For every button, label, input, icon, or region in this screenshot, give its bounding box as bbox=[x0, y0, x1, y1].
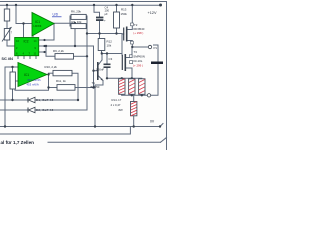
junction (99.5,33.5) bbox=[98, 32, 100, 34]
wire Rb bottom lead bbox=[12, 89, 14, 100]
svg-text:R10, 2,2k: R10, 2,2k bbox=[45, 65, 58, 69]
svg-text:IC2: IC2 bbox=[24, 40, 29, 44]
wire T3 drain up bbox=[131, 47, 133, 58]
wire H67 to IC1b +input bbox=[5, 66, 18, 68]
wire Rb top lead bbox=[12, 67, 14, 72]
IC U2 IC2 bbox=[15, 38, 39, 56]
wire base bus bbox=[93, 46, 95, 88]
wire IC1b feedback loop bbox=[15, 75, 49, 91]
wire IC2 right pin 3 bbox=[39, 51, 45, 53]
wire R11 right lead to T1 base bbox=[75, 87, 94, 89]
svg-text:µF: µF bbox=[105, 12, 109, 16]
wire T1 emitter down to rail bbox=[95, 81, 103, 127]
diode D2 bbox=[28, 107, 54, 113]
svg-text:IC1: IC1 bbox=[35, 20, 40, 24]
svg-text:8W: 8W bbox=[119, 108, 124, 112]
junction (116.5,5) bbox=[115, 4, 117, 6]
wire rail A 0V bbox=[0, 126, 160, 128]
op-amp U1 IC1a bbox=[32, 13, 54, 37]
power resistor R15 bbox=[129, 79, 135, 95]
wire H47 to P1 bbox=[132, 46, 148, 48]
junction (75,46) bbox=[74, 45, 76, 47]
svg-text:BC550: BC550 bbox=[91, 85, 100, 89]
svg-text:LM358: LM358 bbox=[34, 25, 42, 28]
junction (7,5) bbox=[6, 4, 8, 6]
wire T1 base bbox=[94, 70, 98, 72]
wire output drop to H46 bbox=[74, 23, 76, 46]
junction (44.5,46) bbox=[43, 45, 45, 47]
svg-text:0V: 0V bbox=[150, 120, 155, 124]
wire IC1a output bbox=[53, 22, 75, 24]
junction (160.5,5) bbox=[159, 4, 162, 7]
svg-text:4 x 0,47: 4 x 0,47 bbox=[111, 103, 121, 107]
svg-text:al für 1,7 Zellen: al für 1,7 Zellen bbox=[1, 140, 35, 145]
junction (48.5,87.5) bbox=[47, 86, 49, 88]
terminal output bbox=[147, 94, 150, 97]
svg-text:P1: P1 bbox=[154, 46, 158, 50]
wire H95 shunt bottoms bbox=[121, 94, 123, 95]
wire R13 bottom lead bbox=[116, 28, 118, 34]
svg-text:SIC 494: SIC 494 bbox=[2, 57, 14, 61]
resistor Rb (left of IC1b) bbox=[10, 72, 15, 89]
junction (87,56.3) bbox=[86, 55, 88, 57]
wire x122 vertical gate link bbox=[121, 34, 123, 56]
wire IC1a feedback loop bbox=[33, 24, 54, 41]
transistor Q2 T2 MOSFET bbox=[124, 23, 145, 44]
wire R9 left lead bbox=[46, 46, 55, 56]
wire R9 right lead bbox=[74, 55, 88, 57]
wire D2 line bbox=[0, 109, 28, 111]
svg-text:D1, BaT 48: D1, BaT 48 bbox=[36, 98, 54, 102]
wire C4 top lead bbox=[94, 5, 100, 17]
svg-text:IC1: IC1 bbox=[24, 73, 29, 77]
junction (78,100) bbox=[77, 99, 79, 101]
junction (107,78.3) bbox=[106, 77, 108, 79]
resistor R12 bbox=[98, 39, 105, 51]
svg-text:U/D: U/D bbox=[53, 13, 59, 17]
wire rail B bbox=[0, 127, 130, 135]
wire T1 collector diagonal bbox=[99, 60, 103, 65]
wire T1 collector vertical bbox=[101, 54, 103, 61]
wire IC2 right pin 1 bbox=[39, 39, 45, 41]
wire IC2 right pin 2 to H46 bbox=[39, 45, 94, 47]
wire R11 left lead bbox=[49, 87, 58, 89]
junction (75,23.2) bbox=[74, 22, 76, 24]
wire D1 line bbox=[0, 99, 28, 101]
wire C3 bottom lead bbox=[106, 68, 108, 78]
resistor R1 bbox=[4, 9, 9, 21]
frame right bbox=[166, 2, 168, 151]
wire R1 to trimmer bbox=[6, 21, 8, 29]
wire rail A end tick bbox=[160, 124, 163, 127]
capacitor C4 bbox=[96, 6, 109, 23]
junction (87,33.5) bbox=[86, 32, 88, 34]
svg-text:D2, BaT 48: D2, BaT 48 bbox=[36, 108, 54, 112]
junction (44.5,40) bbox=[43, 39, 45, 41]
svg-text:R13: R13 bbox=[121, 8, 127, 12]
wire R1 top lead bbox=[6, 5, 8, 9]
svg-text:+: + bbox=[104, 18, 106, 22]
power resistor R16 bbox=[139, 79, 145, 95]
svg-text:R11, 1k: R11, 1k bbox=[56, 79, 66, 83]
junction (44.5,52) bbox=[43, 51, 45, 53]
junction (5,125) bbox=[4, 125, 6, 127]
svg-text:T3: T3 bbox=[134, 50, 138, 54]
wire R6R7 left connector bbox=[69, 16, 71, 26]
svg-text:100nF: 100nF bbox=[96, 68, 104, 72]
wire +12V rail bbox=[0, 4, 161, 6]
svg-text:R14..17: R14..17 bbox=[112, 98, 122, 102]
resistor R13 bbox=[114, 12, 120, 28]
junction (121.8,78.3) bbox=[121, 77, 123, 79]
wire +input to rail A bbox=[4, 67, 6, 127]
wire trimmer bottom to IC2 left pin bbox=[7, 40, 15, 46]
svg-text:03-10L: 03-10L bbox=[133, 59, 142, 63]
junction (93.5,87.5) bbox=[92, 86, 94, 88]
wire IC1a input bbox=[16, 5, 32, 24]
power resistor R14 bbox=[119, 79, 125, 95]
junction (131.5,125) bbox=[133, 125, 135, 127]
wire R13 top lead bbox=[116, 5, 118, 12]
diode D1 bbox=[28, 97, 54, 103]
svg-text:(+ 299 ): (+ 299 ) bbox=[133, 64, 143, 68]
svg-text:457 mV/4h: 457 mV/4h bbox=[27, 78, 41, 82]
junction (94,5) bbox=[93, 4, 95, 6]
junction (132.3,5) bbox=[131, 4, 133, 6]
transistor Q3 T3 MOSFET bbox=[122, 50, 145, 71]
wire T2 drain bbox=[127, 5, 133, 30]
op-amp U1b IC1b bbox=[18, 63, 47, 87]
transistor Q1 T1 BC550 bbox=[91, 62, 103, 89]
wire T3 drain lead bbox=[125, 57, 132, 59]
junction (46,46) bbox=[45, 45, 47, 47]
wire R17 bottom lead bbox=[133, 116, 135, 127]
wire R12 bottom lead bbox=[101, 51, 103, 54]
wire T2 gate lead bbox=[122, 33, 124, 35]
wire IC2 bottom pin stubs bbox=[17, 56, 19, 59]
capacitor C3 bbox=[96, 57, 113, 72]
wire C3 top lead bbox=[106, 54, 108, 64]
junction (23.5,23.5) bbox=[22, 22, 24, 24]
wire T2 source bbox=[127, 41, 133, 48]
junction (12.5,67) bbox=[11, 66, 13, 68]
svg-text:(+ 298 ): (+ 298 ) bbox=[133, 31, 143, 35]
wire T1 emitter diagonal bbox=[99, 76, 104, 81]
junction (132.3,47) bbox=[131, 46, 133, 48]
junction (160,125) bbox=[159, 125, 161, 127]
caption rule bbox=[48, 141, 161, 143]
wire T3 source bbox=[125, 68, 132, 78]
trimmer P1 bbox=[2, 27, 13, 42]
svg-text:10k: 10k bbox=[107, 44, 112, 48]
wire R10 leads bbox=[49, 72, 54, 74]
svg-text:+12V: +12V bbox=[148, 11, 157, 15]
frame top bbox=[0, 1, 167, 3]
junction (95,125) bbox=[94, 125, 96, 127]
junction (107,53.5) bbox=[106, 52, 108, 54]
junction (141.8,95.3) bbox=[141, 94, 143, 96]
svg-text:R6, 20k: R6, 20k bbox=[71, 10, 82, 14]
svg-text:453 mV/A: 453 mV/A bbox=[27, 83, 39, 87]
wire H52 bbox=[102, 53, 123, 55]
svg-text:R9, 2,2k: R9, 2,2k bbox=[53, 49, 64, 53]
junction (131.8,95.3) bbox=[131, 94, 133, 96]
junction (101.8,53.5) bbox=[101, 52, 103, 54]
junction (48.5,74.5) bbox=[47, 73, 49, 75]
svg-text:C3: C3 bbox=[109, 57, 113, 61]
junction (131.8,78.3) bbox=[131, 77, 133, 79]
junction (93.5,70.7) bbox=[92, 70, 94, 72]
wire drop to IC2 top bbox=[23, 24, 25, 38]
wire R6R7 right connector bbox=[86, 16, 88, 110]
wire R17 top lead bbox=[133, 95, 135, 101]
wire H77 bbox=[107, 77, 142, 79]
power resistor R17 bbox=[131, 102, 137, 116]
junction (116.5,33.5) bbox=[115, 32, 117, 34]
wire C4 bottom lead bbox=[99, 21, 101, 39]
svg-text:150k: 150k bbox=[121, 12, 128, 16]
junction (12.5,100) bbox=[11, 99, 13, 101]
wire right column battery branch bbox=[154, 45, 159, 62]
wire H33 bbox=[87, 33, 122, 35]
junction (16,5) bbox=[15, 4, 17, 6]
battery cell plate bbox=[151, 62, 163, 65]
terminal P1 bbox=[148, 45, 151, 48]
